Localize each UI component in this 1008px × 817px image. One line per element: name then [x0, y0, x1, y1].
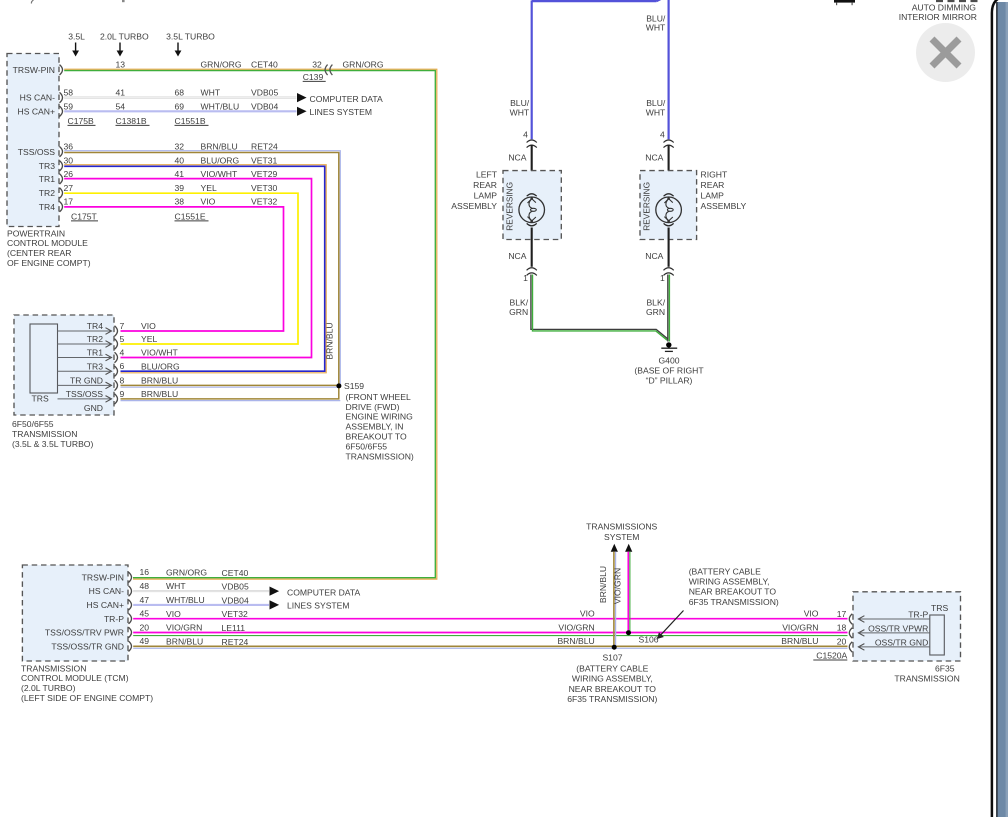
svg-text:69: 69 — [175, 101, 185, 111]
riser arrow VIO/GRN — [625, 544, 632, 552]
svg-text:TSS/OSS: TSS/OSS — [66, 389, 104, 399]
svg-text:TR GND: TR GND — [70, 376, 103, 386]
svg-text:VIO: VIO — [580, 609, 595, 619]
wire label BLU/WHT left — [510, 98, 530, 117]
connector C1520A — [813, 650, 847, 660]
svg-text:HS CAN+: HS CAN+ — [18, 106, 56, 116]
svg-text:HS CAN-: HS CAN- — [20, 93, 55, 103]
transmission 6F50/6F55 box — [14, 315, 114, 415]
svg-text:OSS/TR VPWR: OSS/TR VPWR — [868, 623, 928, 633]
svg-text:TRANSMISSION): TRANSMISSION) — [346, 451, 414, 461]
TCM pin TSS/OSS/TRV PWR — [45, 622, 245, 637]
svg-text:LEFT: LEFT — [476, 169, 498, 179]
svg-text:INTERIOR MIRROR: INTERIOR MIRROR — [899, 12, 977, 22]
wire BLK/GRN right — [668, 275, 670, 342]
riser wire BRN/BLU to S107 — [614, 552, 616, 648]
svg-text:LAMP: LAMP — [701, 191, 725, 201]
wire BLU/WHT top feed — [532, 0, 669, 1]
svg-text:LAMP: LAMP — [474, 191, 498, 201]
svg-text:VIO/GRN: VIO/GRN — [558, 622, 594, 632]
computer data lines arrows (PCM) — [297, 93, 383, 117]
svg-text:4: 4 — [523, 130, 528, 140]
S107 note — [567, 663, 657, 704]
TRS pin TSS/OSS (9) — [58, 389, 179, 404]
svg-text:CET40: CET40 — [251, 59, 278, 69]
svg-text:TRANSMISSION: TRANSMISSION — [12, 429, 77, 439]
svg-text:SYSTEM: SYSTEM — [604, 532, 639, 542]
svg-text:8: 8 — [120, 375, 125, 385]
wire BLU/WHT to right rear lamp — [667, 0, 669, 139]
svg-text:BREAKOUT TO: BREAKOUT TO — [346, 432, 407, 442]
svg-text:BRN/BLU: BRN/BLU — [598, 566, 608, 603]
svg-text:GND: GND — [84, 403, 103, 413]
svg-text:(CENTER REAR: (CENTER REAR — [7, 248, 71, 258]
svg-text:TRS: TRS — [32, 394, 49, 404]
transmission 6F35 box — [853, 592, 961, 661]
svg-text:TRSW-PIN: TRSW-PIN — [13, 65, 55, 75]
svg-text:WHT/BLU: WHT/BLU — [166, 595, 205, 605]
svg-text:S106: S106 — [639, 634, 659, 644]
wire VIO TR-P circuit VET32 — [133, 618, 847, 620]
riser label BRN/BLU — [598, 566, 608, 603]
PCM label — [7, 228, 91, 268]
svg-text:1: 1 — [523, 273, 528, 283]
svg-text:17: 17 — [837, 609, 847, 619]
svg-text:VIO/WHT: VIO/WHT — [201, 169, 239, 179]
svg-text:TRS: TRS — [931, 603, 948, 613]
svg-text:ASSEMBLY, IN: ASSEMBLY, IN — [346, 422, 404, 432]
mid wire labels — [557, 609, 595, 647]
svg-text:(BASE OF RIGHT: (BASE OF RIGHT — [634, 366, 704, 376]
svg-text:ASSEMBLY: ASSEMBLY — [451, 201, 497, 211]
svg-text:POWERTRAIN: POWERTRAIN — [7, 228, 65, 238]
svg-text:NEAR BREAKOUT TO: NEAR BREAKOUT TO — [689, 587, 777, 597]
svg-text:C1551E: C1551E — [175, 211, 206, 221]
wire GRN/ORG TRSW-PIN circuit CET40 — [64, 69, 437, 579]
ground G400 — [634, 342, 704, 385]
PCM pin HS CAN- — [20, 92, 63, 102]
svg-text:TSS/OSS/TRV PWR: TSS/OSS/TRV PWR — [45, 628, 124, 638]
svg-text:TR3: TR3 — [87, 361, 103, 371]
svg-text:(2.0L TURBO): (2.0L TURBO) — [21, 683, 76, 693]
cut-off marks top left — [31, 0, 124, 4]
svg-text:3.5L TURBO: 3.5L TURBO — [166, 31, 215, 41]
PCM pin TR3 — [39, 161, 63, 171]
TRS pin TR3 (6) — [58, 361, 180, 376]
svg-text:S107: S107 — [602, 653, 622, 663]
svg-text:20: 20 — [140, 622, 150, 632]
S159 note — [346, 392, 414, 461]
svg-text:LINES SYSTEM: LINES SYSTEM — [287, 600, 350, 610]
svg-text:VIO/GRN: VIO/GRN — [782, 622, 818, 632]
svg-text:WHT: WHT — [510, 107, 530, 117]
svg-text:C175B: C175B — [68, 116, 95, 126]
PCM module box — [7, 54, 59, 227]
wire BLK/GRN left — [531, 275, 668, 341]
page border right — [992, 0, 1002, 817]
wire BRN/BLU TSS/OSS circuit RET24 — [64, 151, 340, 385]
right lamp connector pin 1 — [660, 268, 674, 283]
svg-text:YEL: YEL — [201, 183, 217, 193]
svg-text:S159: S159 — [344, 381, 364, 391]
svg-text:RET24: RET24 — [222, 637, 249, 647]
svg-text:AUTO DIMMING: AUTO DIMMING — [912, 2, 977, 12]
svg-text:TSS/OSS/TR GND: TSS/OSS/TR GND — [51, 641, 124, 651]
right lamp NCA upper — [645, 145, 668, 197]
6F35 pin numbers — [837, 609, 847, 647]
svg-text:WIRING ASSEMBLY,: WIRING ASSEMBLY, — [572, 674, 653, 684]
svg-text:REVERSING: REVERSING — [642, 182, 652, 231]
svg-text:6F50/6F55: 6F50/6F55 — [12, 419, 54, 429]
svg-text:5: 5 — [120, 334, 125, 344]
svg-text:CET40: CET40 — [222, 568, 249, 578]
svg-text:WHT: WHT — [201, 88, 221, 98]
svg-text:(BATTERY CABLE: (BATTERY CABLE — [576, 663, 648, 673]
wire label BLU/WHT right — [646, 98, 666, 117]
svg-text:2.0L TURBO: 2.0L TURBO — [100, 31, 149, 41]
transmission 6F35 label — [894, 663, 959, 683]
svg-text:NCA: NCA — [645, 152, 663, 162]
svg-text:7: 7 — [120, 321, 125, 331]
svg-text:VET32: VET32 — [222, 609, 248, 619]
svg-text:32: 32 — [312, 59, 322, 69]
pin numbers C175B/C175T column — [64, 88, 74, 207]
svg-text:CONTROL MODULE: CONTROL MODULE — [7, 238, 88, 248]
riser label VIO/GRN — [612, 568, 622, 604]
TRS pin GND second line — [84, 403, 103, 413]
svg-text:LE111: LE111 — [222, 623, 246, 633]
right lamp NCA lower — [645, 228, 668, 267]
svg-text:TR-P: TR-P — [908, 609, 928, 619]
TCM pin TSS/OSS/TR GND — [51, 636, 248, 651]
svg-text:41: 41 — [175, 169, 185, 179]
TRS pin TR1 (4) — [58, 347, 179, 362]
variant arrow 3 — [175, 43, 182, 57]
svg-text:NCA: NCA — [508, 152, 526, 162]
svg-text:58: 58 — [64, 88, 74, 98]
vertical wire label BRN/BLU — [325, 322, 335, 359]
svg-text:VIO/GRN: VIO/GRN — [612, 568, 622, 604]
svg-text:3.5L: 3.5L — [68, 31, 85, 41]
svg-text:(BATTERY CABLE: (BATTERY CABLE — [689, 567, 761, 577]
svg-text:68: 68 — [175, 88, 185, 98]
svg-text:BRN/BLU: BRN/BLU — [141, 376, 178, 386]
PCM pin TR4 — [39, 202, 63, 212]
svg-text:VDB05: VDB05 — [251, 88, 278, 98]
svg-text:BLU/ORG: BLU/ORG — [141, 361, 180, 371]
right wire labels — [781, 609, 819, 647]
connector C1551B — [175, 116, 209, 126]
svg-text:TR4: TR4 — [87, 321, 103, 331]
right rear lamp assembly box — [640, 171, 697, 240]
svg-text:27: 27 — [64, 183, 74, 193]
right reversing lamp — [642, 182, 682, 231]
svg-text:TR1: TR1 — [87, 348, 103, 358]
wire BRN/BLU TSS/OSS/TR GND circuit RET24 — [133, 646, 847, 648]
svg-text:BRN/BLU: BRN/BLU — [325, 322, 335, 359]
PCM pin TR2 — [39, 188, 63, 198]
svg-text:NCA: NCA — [508, 251, 526, 261]
6F35 pin OSS/TR VPWR — [849, 623, 930, 638]
svg-text:YEL: YEL — [141, 334, 157, 344]
pin numbers C1381B column — [116, 59, 126, 111]
connector C1551E — [175, 211, 209, 221]
svg-text:GRN: GRN — [509, 307, 528, 317]
wire BLU/WHT to left rear lamp — [531, 1, 533, 140]
pin numbers C1551B/C1551E column — [175, 88, 185, 207]
riser wire VIO/GRN to S106 — [628, 552, 630, 633]
TCM pin HS CAN- — [89, 581, 249, 596]
svg-text:VIO/WHT: VIO/WHT — [141, 348, 179, 358]
S106 note with leader — [657, 567, 779, 640]
svg-text:TR4: TR4 — [39, 202, 55, 212]
left rear lamp assembly label — [451, 169, 497, 211]
svg-text:RIGHT: RIGHT — [701, 169, 728, 179]
svg-text:TRSW-PIN: TRSW-PIN — [82, 572, 124, 582]
right rear lamp assembly label — [701, 169, 747, 211]
left lamp NCA lower — [508, 228, 531, 267]
TCM pin HS CAN+ — [87, 595, 249, 610]
svg-text:WIRING ASSEMBLY,: WIRING ASSEMBLY, — [689, 577, 770, 587]
wire YEL TR2 circuit VET30 — [64, 193, 298, 344]
left lamp connector pin 1 — [523, 268, 537, 283]
riser arrow BRN/BLU — [611, 544, 618, 552]
left reversing lamp — [505, 182, 545, 231]
svg-text:TR1: TR1 — [39, 174, 55, 184]
svg-text:BRN/BLU: BRN/BLU — [166, 636, 203, 646]
svg-text:WHT: WHT — [646, 107, 666, 117]
cut-off component top — [834, 0, 855, 5]
svg-text:GRN/ORG: GRN/ORG — [343, 59, 384, 69]
svg-text:13: 13 — [116, 59, 126, 69]
svg-text:HS CAN-: HS CAN- — [89, 586, 124, 596]
cut-off dashed border top right — [936, 0, 978, 2]
svg-text:1: 1 — [660, 273, 665, 283]
svg-text:C1520A: C1520A — [816, 650, 847, 660]
wire label BLK/GRN right — [646, 298, 666, 317]
svg-text:LINES SYSTEM: LINES SYSTEM — [310, 107, 373, 117]
svg-text:COMPUTER DATA: COMPUTER DATA — [287, 588, 360, 598]
wire WHT HS CAN- circuit VDB05 — [64, 97, 296, 99]
svg-text:(3.5L & 3.5L TURBO): (3.5L & 3.5L TURBO) — [12, 439, 93, 449]
left rear lamp assembly box — [503, 171, 561, 240]
TRS range sensor (right) — [930, 603, 949, 655]
svg-text:9: 9 — [120, 389, 125, 399]
svg-text:26: 26 — [64, 169, 74, 179]
variant label 2.0L TURBO — [100, 31, 149, 41]
wire VIO/WHT TR1 circuit VET29 — [64, 179, 311, 358]
svg-text:47: 47 — [140, 595, 150, 605]
wire VIO/GRN TSS/OSS/TRV PWR circuit LE111 — [133, 633, 847, 636]
svg-text:VIO: VIO — [166, 609, 181, 619]
svg-text:NEAR BREAKOUT TO: NEAR BREAKOUT TO — [569, 684, 657, 694]
svg-text:GRN/ORG: GRN/ORG — [201, 59, 242, 69]
svg-text:VIO: VIO — [201, 197, 216, 207]
svg-text:4: 4 — [120, 347, 125, 357]
wire WHT TCM HS CAN- — [133, 590, 269, 592]
splice S107 — [602, 645, 622, 663]
splice S106 — [626, 630, 659, 644]
svg-text:REVERSING: REVERSING — [505, 182, 515, 231]
right lamp connector pin 4 — [660, 130, 674, 148]
variant arrow 1 — [72, 43, 79, 57]
svg-text:TR2: TR2 — [87, 334, 103, 344]
svg-text:WHT: WHT — [646, 23, 666, 33]
TCM label — [21, 663, 153, 703]
svg-text:DRIVE (FWD): DRIVE (FWD) — [346, 402, 400, 412]
svg-text:39: 39 — [175, 183, 185, 193]
splice S159 — [121, 381, 365, 401]
TCM pin TR-P — [104, 609, 248, 624]
svg-text:ENGINE WIRING: ENGINE WIRING — [346, 412, 414, 422]
variant arrow 2 — [117, 43, 124, 57]
svg-text:GRN: GRN — [646, 307, 665, 317]
svg-text:6F35: 6F35 — [935, 663, 955, 673]
svg-text:18: 18 — [837, 623, 847, 633]
PCM pin TSS/OSS — [18, 147, 63, 157]
scrollbar track right edge — [996, 2, 1008, 817]
svg-text:59: 59 — [64, 101, 74, 111]
svg-text:38: 38 — [175, 197, 185, 207]
wire WHT/BLU TCM HS CAN+ — [133, 604, 269, 606]
inline connector C139 — [303, 59, 384, 82]
svg-text:TRANSMISSION: TRANSMISSION — [894, 673, 959, 683]
svg-text:48: 48 — [140, 581, 150, 591]
svg-text:VIO/GRN: VIO/GRN — [166, 623, 202, 633]
6F35 pin OSS/TR GND — [849, 637, 930, 652]
PCM pin TR1 — [39, 174, 63, 184]
svg-text:BRN/BLU: BRN/BLU — [141, 389, 178, 399]
svg-text:“D” PILLAR): “D” PILLAR) — [646, 376, 693, 386]
svg-text:TR-P: TR-P — [104, 614, 124, 624]
svg-text:49: 49 — [140, 636, 150, 646]
PCM pin HS CAN+ — [18, 106, 63, 116]
svg-text:(LEFT SIDE OF ENGINE COMPT): (LEFT SIDE OF ENGINE COMPT) — [21, 693, 153, 703]
svg-text:TRANSMISSION: TRANSMISSION — [21, 663, 86, 673]
svg-text:OSS/TR GND: OSS/TR GND — [875, 637, 928, 647]
svg-text:6: 6 — [120, 361, 125, 371]
svg-text:6F35 TRANSMISSION): 6F35 TRANSMISSION) — [689, 597, 779, 607]
TCM module box — [22, 565, 128, 661]
transmissions system label — [586, 522, 657, 542]
6F35 pin TR-P — [849, 609, 930, 624]
TRS range sensor (left) — [30, 324, 58, 404]
svg-text:20: 20 — [837, 637, 847, 647]
wire VIO TR4 circuit VET32 — [64, 207, 283, 331]
wire GRN/ORG TCM TRSW-PIN stub — [0, 0, 1, 1]
svg-text:C139: C139 — [303, 72, 324, 82]
TRS pin TR4 (7) — [58, 321, 157, 336]
auto dimming interior mirror label (cut off) — [899, 2, 977, 22]
svg-text:REAR: REAR — [473, 180, 497, 190]
svg-text:WHT: WHT — [166, 581, 186, 591]
PCM pin TRSW-PIN — [13, 65, 63, 75]
svg-text:54: 54 — [116, 101, 126, 111]
svg-text:17: 17 — [64, 197, 74, 207]
transmission 6F50/6F55 label — [12, 419, 93, 449]
svg-text:C175T: C175T — [71, 211, 98, 221]
close button — [916, 23, 975, 82]
TRS pin TR2 (5) — [58, 334, 158, 349]
svg-text:C1551B: C1551B — [175, 116, 206, 126]
connector C1381B — [116, 116, 150, 126]
svg-text:NCA: NCA — [645, 251, 663, 261]
svg-text:GRN/ORG: GRN/ORG — [166, 567, 207, 577]
connector C175B — [68, 116, 96, 126]
svg-text:BRN/BLU: BRN/BLU — [557, 636, 594, 646]
wire WHT/BLU HS CAN+ circuit VDB04 — [64, 110, 296, 112]
svg-text:VIO: VIO — [141, 321, 156, 331]
TCM pin TRSW-PIN — [82, 567, 249, 582]
computer data lines arrows (TCM) — [270, 587, 361, 611]
svg-text:6F50/6F55: 6F50/6F55 — [346, 441, 388, 451]
svg-text:COMPUTER DATA: COMPUTER DATA — [310, 94, 383, 104]
variant label 3.5L TURBO — [166, 31, 215, 41]
wire labels PCM rows — [201, 59, 279, 206]
svg-text:VET29: VET29 — [251, 169, 277, 179]
wire BLU/ORG TR3 circuit VET31 — [64, 165, 326, 373]
svg-text:41: 41 — [116, 88, 126, 98]
wire label BLK/GRN left — [509, 298, 529, 317]
svg-text:VIO: VIO — [804, 609, 819, 619]
svg-text:CONTROL MODULE (TCM): CONTROL MODULE (TCM) — [21, 673, 129, 683]
svg-text:(FRONT WHEEL: (FRONT WHEEL — [346, 392, 411, 402]
svg-text:45: 45 — [140, 609, 150, 619]
svg-text:VDB04: VDB04 — [251, 101, 278, 111]
svg-text:6F35 TRANSMISSION): 6F35 TRANSMISSION) — [567, 694, 657, 704]
left lamp NCA upper — [508, 145, 531, 197]
svg-text:REAR: REAR — [701, 180, 725, 190]
svg-text:16: 16 — [140, 567, 150, 577]
wire label BLU/WHT right top — [646, 13, 666, 32]
svg-text:TR3: TR3 — [39, 161, 55, 171]
svg-text:BRN/BLU: BRN/BLU — [781, 636, 818, 646]
connector C175T — [71, 211, 98, 221]
left lamp connector pin 4 — [523, 130, 537, 148]
svg-text:ASSEMBLY: ASSEMBLY — [701, 201, 747, 211]
TRS pin TR GND (8) — [58, 375, 179, 390]
svg-text:TR2: TR2 — [39, 188, 55, 198]
svg-text:C1381B: C1381B — [116, 116, 147, 126]
svg-text:WHT/BLU: WHT/BLU — [201, 101, 240, 111]
svg-text:TSS/OSS: TSS/OSS — [18, 147, 56, 157]
svg-text:VET30: VET30 — [251, 183, 277, 193]
svg-text:VET32: VET32 — [251, 197, 277, 207]
svg-text:TRANSMISSIONS: TRANSMISSIONS — [586, 522, 657, 532]
svg-text:G400: G400 — [658, 356, 679, 366]
svg-text:HS CAN+: HS CAN+ — [87, 600, 125, 610]
variant label 3.5L — [68, 31, 85, 41]
svg-text:OF ENGINE COMPT): OF ENGINE COMPT) — [7, 258, 91, 268]
svg-text:4: 4 — [660, 130, 665, 140]
